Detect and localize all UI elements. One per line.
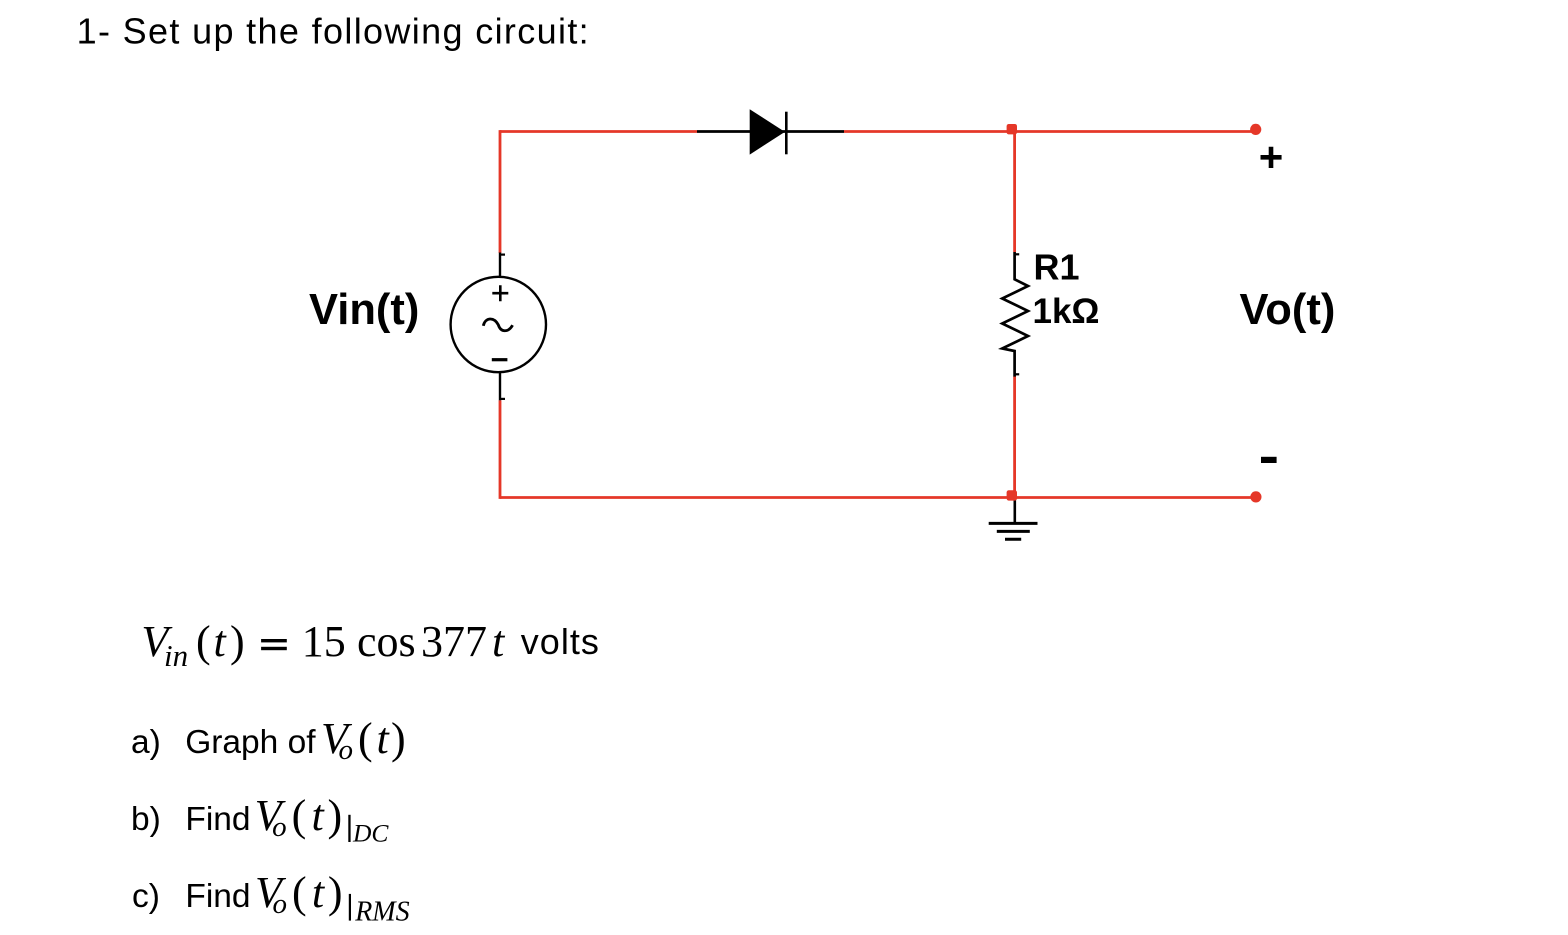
svg-text:c): c) — [132, 878, 160, 915]
svg-text:RMS: RMS — [354, 897, 409, 928]
wire: top rail right segment (red) — [844, 130, 1256, 133]
svg-text:volts: volts — [521, 621, 600, 662]
svg-text:o: o — [272, 811, 287, 843]
svg-text:Vin(t): Vin(t) — [309, 286, 419, 334]
wire: resistor branch upper red segment — [1013, 132, 1016, 253]
wire: left vertical from source to bottom rail (red) — [499, 400, 502, 499]
list item a) Graph of Vo(t) — [131, 714, 406, 766]
svg-text:b): b) — [131, 801, 161, 838]
svg-text:t: t — [377, 714, 391, 763]
diode D1 — [697, 109, 844, 154]
svg-text:): ) — [230, 617, 245, 666]
svg-text:15: 15 — [302, 617, 346, 666]
svg-text:(: ( — [292, 868, 307, 917]
list item b) Find Vo(t)|DC — [131, 791, 389, 848]
resistor R1 — [1002, 252, 1028, 377]
svg-text:1kΩ: 1kΩ — [1033, 292, 1100, 331]
svg-text:+: + — [1259, 134, 1284, 181]
svg-text:o: o — [273, 888, 288, 920]
svg-text:1- Set up the following circui: 1- Set up the following circuit: — [77, 11, 590, 52]
equation: Vin(t) = 15 cos 377t volts — [141, 617, 599, 673]
svg-text:DC: DC — [352, 819, 389, 848]
svg-text:(: ( — [292, 791, 307, 840]
svg-text:): ) — [391, 714, 406, 763]
AC source V1 — [451, 253, 546, 401]
svg-text:t: t — [214, 617, 228, 666]
svg-text:t: t — [312, 868, 326, 917]
svg-text:o: o — [339, 734, 354, 766]
svg-text:a): a) — [131, 724, 161, 761]
label - (output polarity) — [1261, 457, 1277, 463]
svg-text:Find: Find — [185, 801, 250, 838]
svg-text:Vo(t): Vo(t) — [1240, 286, 1336, 334]
node: bottom junction — [1007, 490, 1017, 500]
svg-text:): ) — [328, 791, 343, 840]
node: output - terminal — [1250, 491, 1261, 502]
svg-text:t: t — [492, 617, 506, 666]
svg-text:R1: R1 — [1034, 247, 1080, 288]
svg-text:(: ( — [358, 714, 373, 763]
svg-text:(: ( — [196, 617, 211, 666]
svg-text:): ) — [328, 868, 343, 917]
svg-text:in: in — [164, 638, 188, 673]
wire: resistor branch lower red segment — [1013, 376, 1016, 497]
ground — [989, 498, 1038, 540]
wire: left vertical from top corner to source (red) — [499, 130, 502, 253]
svg-text:Graph of: Graph of — [185, 724, 316, 761]
svg-text:377: 377 — [421, 617, 487, 666]
wire: top rail left segment (red) — [500, 130, 697, 133]
svg-text:cos: cos — [357, 617, 416, 666]
node: top junction — [1007, 124, 1017, 134]
wire: bottom rail (red) — [500, 496, 1256, 499]
list item c) Find Vo(t)|RMS — [132, 868, 410, 928]
svg-text:t: t — [312, 791, 326, 840]
node: output + terminal — [1250, 124, 1261, 135]
svg-text:Find: Find — [185, 878, 250, 915]
